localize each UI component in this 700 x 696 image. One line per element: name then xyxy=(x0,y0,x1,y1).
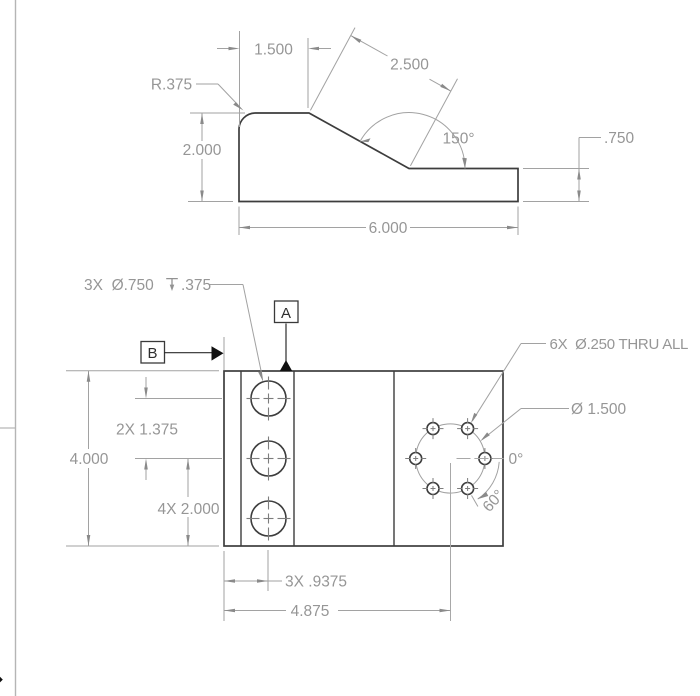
dimension 4.000 text xyxy=(70,451,109,468)
dimension 3X .9375 extension lines xyxy=(224,550,268,621)
sheet border vertical line xyxy=(15,0,17,696)
pattern centerline vertical xyxy=(450,463,452,621)
pattern centerline horizontal to 0deg xyxy=(457,458,504,460)
svg-text:1.500: 1.500 xyxy=(254,42,293,59)
counterbore hole 2 xyxy=(251,441,286,476)
dimension .750 text xyxy=(604,130,635,147)
svg-text:2.000: 2.000 xyxy=(183,142,222,159)
dimension 2.500 dimension line and arrows xyxy=(351,36,451,92)
dimension 4X 2.000 text xyxy=(157,501,219,518)
dimension 2X 1.375 extension line (hole1 centerline) xyxy=(135,398,222,400)
datum B box xyxy=(141,342,165,364)
svg-text:R.375: R.375 xyxy=(151,77,192,94)
edge line (slope start) xyxy=(293,371,295,546)
dimension 6.000 dimension line and arrows xyxy=(239,226,518,230)
dimension 2.000 dimension line and arrows xyxy=(200,113,204,202)
dimension 1.500 text xyxy=(254,42,293,59)
dimension 2.000 text xyxy=(183,142,222,159)
dimension 1.500 extension lines xyxy=(240,31,309,127)
part outline side view xyxy=(239,113,518,202)
small hole 240deg center mark xyxy=(423,478,444,499)
angle 0 text xyxy=(509,451,524,468)
angle dimension 150 arc and arrows xyxy=(360,113,467,169)
bolt circle callout text 1.500 xyxy=(571,401,627,418)
dimension .750 extension lines xyxy=(523,169,589,202)
dimension 3X .9375 dimension line and arrows xyxy=(224,579,282,583)
angle dimension 60 arc and arrow xyxy=(472,462,500,507)
datum B leader and triangle xyxy=(164,337,224,370)
dimension 4X 2.000 dimension line and arrows xyxy=(186,459,190,547)
small hole 0deg center mark xyxy=(474,448,495,469)
svg-text:4.875: 4.875 xyxy=(291,603,330,620)
svg-text:6.000: 6.000 xyxy=(369,220,408,237)
dimension 3X .9375 text xyxy=(285,574,347,591)
dimension 2.000 extension lines xyxy=(188,113,245,202)
dimension 6.000 text xyxy=(369,220,408,237)
small hole 120deg xyxy=(427,423,439,435)
svg-text:B: B xyxy=(147,345,157,362)
counterbore hole 3 xyxy=(251,501,286,536)
hole 2 center mark xyxy=(247,437,291,481)
counterbore hole 1 xyxy=(251,381,286,416)
bolt circle callout leader xyxy=(480,409,569,442)
dimension 2.500 text xyxy=(390,57,429,74)
dimension 2X 1.375 arrows xyxy=(144,377,148,480)
small hole 300deg center mark xyxy=(457,478,478,499)
sheet zone tick xyxy=(0,427,16,429)
small hole 180deg center mark xyxy=(405,448,426,469)
svg-text:150°: 150° xyxy=(442,131,474,148)
svg-text:Ø 1.500: Ø 1.500 xyxy=(571,401,627,418)
datum A leader and triangle xyxy=(280,324,292,372)
edge line (fillet tangent) xyxy=(240,371,242,546)
hole 1 center mark xyxy=(247,377,291,421)
radius text R.375 xyxy=(151,77,192,94)
counterbore callout leader xyxy=(209,285,263,383)
dimension .750 dimension line, arrows and leader xyxy=(577,138,601,202)
svg-text:4.000: 4.000 xyxy=(70,451,109,468)
small hole 120deg center mark xyxy=(423,418,444,439)
thru hole callout text 6X .250 THRU ALL xyxy=(550,336,689,353)
small hole 240deg xyxy=(427,483,439,495)
radius leader R.375 xyxy=(196,84,244,111)
edge line (slope end) xyxy=(393,371,395,546)
dimension 4.875 dimension line and arrows xyxy=(224,609,451,613)
counterbore callout text 3X .750 depth .375 xyxy=(84,277,211,294)
dimension 2X 1.375 extension line (hole2 centerline) xyxy=(135,458,222,460)
dimension 2.500 extension lines (perpendicular to slope) xyxy=(310,28,457,166)
hole 3 center mark xyxy=(247,497,291,541)
angle dimension 150 text xyxy=(442,131,474,148)
angle 60 text (rotated) xyxy=(480,487,508,516)
small hole 60deg center mark xyxy=(457,418,478,439)
svg-text:0°: 0° xyxy=(509,451,524,468)
svg-text:2.500: 2.500 xyxy=(390,57,429,74)
small hole 60deg xyxy=(462,423,474,435)
small hole 0deg xyxy=(479,453,491,465)
svg-text:4X 2.000: 4X 2.000 xyxy=(157,501,219,518)
dimension 1.500 dimension line and arrows xyxy=(217,47,331,51)
bolt circle centerline xyxy=(416,424,485,493)
svg-text:3X .9375: 3X .9375 xyxy=(285,574,347,591)
svg-text:A: A xyxy=(281,305,291,322)
svg-text:.375: .375 xyxy=(181,277,211,294)
svg-text:6X Ø.250 THRU ALL: 6X Ø.250 THRU ALL xyxy=(550,336,689,353)
dimension 4.000 dimension line and arrows xyxy=(87,371,91,546)
datum A box xyxy=(275,301,299,323)
svg-text:3X Ø.750: 3X Ø.750 xyxy=(84,277,154,294)
dimension 6.000 extension lines xyxy=(239,207,518,236)
part outline plan view xyxy=(224,371,503,546)
svg-text:.750: .750 xyxy=(604,130,635,147)
svg-text:2X 1.375: 2X 1.375 xyxy=(116,422,178,439)
small hole 180deg xyxy=(410,453,422,465)
thru hole callout leader xyxy=(471,344,546,424)
dimension 4.875 text xyxy=(291,603,330,620)
dimension 4.000 extension lines xyxy=(66,371,219,546)
sheet edge arrow mark xyxy=(0,677,3,683)
small hole 300deg xyxy=(462,483,474,495)
dimension 2X 1.375 text xyxy=(116,422,178,439)
